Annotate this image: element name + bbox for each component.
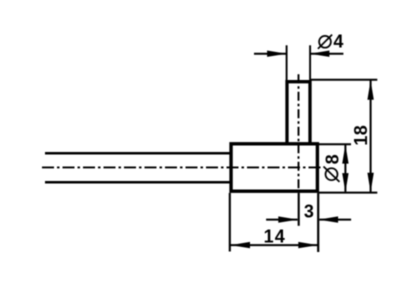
extension line right of Ø4 dim [309,45,311,80]
wire cable bottom line [45,181,232,184]
arrow 3 right (points left) [319,216,339,222]
arrow Ø8 top (points up) [342,145,348,164]
dimension line Ø8 [344,145,346,192]
arrow 18 top (points up) [367,80,373,100]
vertical centerline (probe axis) [298,74,300,191]
sensor body block 14x8 [231,144,317,191]
extension line below block (probe axis) for 3 dim [298,193,300,226]
arrow 14 left (points left) [231,242,251,248]
arrow Ø4 left (points right) [267,51,287,57]
arrow Ø8 bottom (points down) [342,173,348,192]
dimension line 3 right segment [319,219,351,221]
arrow 18 bottom (points down) [367,173,373,193]
dimension line Ø4 left segment [254,53,286,55]
extension line left of Ø4 dim [286,45,288,80]
svg-text:4: 4 [333,32,343,52]
svg-text:14: 14 [264,226,286,246]
probe tube Ø4 [287,82,310,145]
svg-text:8: 8 [322,154,342,164]
diameter symbol of Ø8 label (rotated) [324,167,340,182]
dimension line 14 [230,244,318,246]
dimension line Ø4 right segment [310,53,343,55]
extension line top of Ø8 dim (block top) [319,143,351,145]
diameter symbol of Ø4 label [318,35,332,49]
dimension line 3 left segment [266,219,297,221]
dimension line 18 [370,80,372,192]
arrow 14 right (points right) [298,242,318,248]
wire cable top line [45,152,232,155]
svg-text:18: 18 [351,125,371,146]
arrow 3 left (points right) [278,216,298,222]
extension line top of 18 dim (tube top) [311,79,377,81]
extension line below block left edge (14 dim) [229,193,231,252]
horizontal centerline [42,166,322,168]
extension line bottom of 18 dim (block bottom) [319,192,377,194]
extension line below block right edge (3 dim / 14 dim) [317,193,319,252]
arrow Ø4 right (points left) [310,51,330,57]
svg-text:3: 3 [304,201,314,221]
